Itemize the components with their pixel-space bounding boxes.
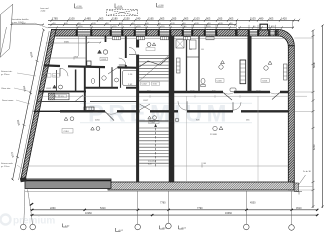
bottom level mark 2 — [116, 228, 124, 232]
left slant wall dim texts — [10, 52, 33, 159]
room label C002 — [46, 88, 52, 90]
svg-text:C003: C003 — [101, 59, 107, 61]
door leaf wallE 2 — [270, 93, 280, 100]
right-section window dim ticks — [238, 26, 294, 29]
svg-text:903: 903 — [229, 17, 234, 21]
stair label cluster top — [146, 43, 156, 51]
door leaf wallE 1 — [223, 93, 234, 101]
small fixture narrow room — [190, 40, 197, 49]
dark fixture above wallF — [84, 107, 94, 110]
left label 3 — [2, 99, 30, 104]
left boundary line top — [0, 27, 7, 57]
door leaf at y101.5 wall — [75, 95, 83, 102]
window jamb leaders — [77, 25, 276, 30]
stair text — [148, 161, 157, 166]
neighbour label — [12, 19, 49, 28]
svg-text:5870: 5870 — [313, 62, 316, 68]
big room label — [210, 126, 223, 136]
svg-text:C007: C007 — [143, 100, 149, 102]
svg-text:1165: 1165 — [148, 17, 154, 21]
svg-text:480: 480 — [259, 17, 264, 21]
svg-text:903: 903 — [206, 17, 211, 21]
top-left outside dim — [10, 23, 44, 26]
dim line in C003 — [87, 42, 101, 44]
stair landing boxes — [141, 82, 160, 86]
bottom dimension line A — [30, 202, 318, 211]
interior thin wall y=101.5 left — [37, 101, 87, 103]
svg-text:7790: 7790 — [197, 207, 203, 210]
window W4 — [159, 30, 170, 36]
small labels top rooms — [189, 49, 205, 51]
window jamb piers — [76, 30, 277, 36]
tiny texts along wall E row — [147, 91, 261, 93]
stair break line — [139, 56, 169, 82]
door leaf wallA gap — [108, 68, 118, 75]
window W1 — [77, 30, 91, 36]
partition link line — [187, 56, 200, 58]
slanted left wall — [21, 30, 56, 181]
interior wall A (y=68.8) — [44, 65, 139, 67]
symbol pair 2 left block — [91, 127, 100, 131]
right corner detail — [294, 170, 313, 195]
svg-text:C001: C001 — [43, 75, 49, 77]
grid circle C1 — [244, 191, 250, 230]
stair landing edge — [139, 120, 169, 122]
grid circle B1 — [135, 191, 141, 230]
watermark logo bottom-left — [1, 215, 56, 227]
svg-text:265: 265 — [218, 17, 223, 21]
sink circle 2 — [115, 78, 119, 82]
top wall (hatched, with windows) — [52, 30, 279, 37]
bathroom partition x=96 — [99, 67, 101, 88]
label cluster mid — [128, 74, 133, 86]
svg-text:+2.80: +2.80 — [76, 6, 82, 8]
bottom wall — [108, 182, 294, 190]
door arc wallF 2 — [178, 101, 187, 110]
dashed roof triangle — [107, 10, 138, 16]
svg-text:4550: 4550 — [250, 202, 256, 205]
door arc wallF 3 — [233, 102, 241, 110]
slant wall outer insulation line — [19, 31, 50, 180]
svg-text:1485: 1485 — [85, 17, 91, 21]
grid circle A1 — [21, 190, 27, 230]
rounded top-right corner — [278, 30, 294, 46]
room label stairhall — [143, 100, 149, 102]
room label C001 — [42, 74, 60, 78]
left label 1 — [1, 70, 36, 76]
wc small — [91, 79, 95, 84]
svg-text:1785: 1785 — [52, 17, 58, 21]
thin line y=96.5 right part — [39, 95, 308, 98]
radiator under W4 — [161, 37, 169, 40]
bottom level mark 0.00 — [63, 224, 71, 228]
stair label — [148, 116, 159, 124]
top level mark 2 — [115, 4, 123, 9]
svg-text:903: 903 — [99, 17, 104, 21]
door leaf wallF left — [105, 112, 117, 121]
terrain line at left — [24, 163, 288, 168]
radiator under W3 — [137, 37, 145, 40]
svg-text:Sciana istn.: Sciana istn. — [1, 70, 13, 73]
door X above stair — [140, 104, 151, 110]
interior wall E (y=93.5, right part) — [137, 91, 288, 94]
bathroom block wall y=86 — [85, 87, 139, 89]
right wall leader lines — [294, 38, 313, 190]
svg-text:1100: 1100 — [69, 17, 75, 21]
svg-text:4510: 4510 — [296, 207, 302, 210]
radiator under W2 — [113, 37, 121, 40]
lintel line under top wall — [56, 37, 288, 39]
bathtub — [123, 71, 138, 86]
sink circle 1 — [102, 76, 106, 80]
left label 2 — [1, 87, 32, 92]
top dimension texts row2 — [53, 23, 233, 25]
top right vertical leader — [236, 20, 292, 30]
stair door arc into room — [129, 48, 136, 55]
svg-text:2x dr 30: 2x dr 30 — [303, 170, 312, 173]
svg-text:1420: 1420 — [281, 17, 287, 21]
stair treads upper flight — [139, 56, 169, 82]
svg-text:16660: 16660 — [225, 212, 233, 215]
svg-text:C002: C002 — [46, 88, 52, 90]
vertical wall B upper (x=86, y36-68) — [85, 36, 87, 67]
window W6 — [205, 30, 216, 36]
window W3 — [135, 30, 146, 36]
right dimension line 1 — [312, 30, 316, 209]
top level mark 1 — [75, 4, 83, 9]
svg-text:1103: 1103 — [194, 17, 200, 21]
svg-text:1150: 1150 — [124, 17, 130, 21]
grid line vertical x=265 — [257, 96, 259, 182]
vertical wall G — [248, 36, 252, 92]
right wall — [288, 46, 294, 190]
window W2 — [111, 30, 122, 36]
watermark text center — [88, 101, 231, 128]
right dimension line 2 — [321, 25, 324, 209]
svg-text:1103: 1103 — [250, 17, 256, 21]
svg-text:gr. 25cm: gr. 25cm — [1, 73, 10, 76]
grid line vertical x=186 — [186, 96, 188, 182]
duct cabinet beside wall G — [240, 60, 246, 84]
svg-text:903: 903 — [160, 17, 165, 21]
grid circle A2 — [28, 190, 36, 230]
room symbol s1 — [53, 85, 63, 89]
svg-text:C005: C005 — [217, 81, 223, 83]
vertical partition x=186.5 — [186, 36, 188, 92]
door arc room1 — [60, 68, 68, 76]
partition left block x=66.5 — [75, 70, 77, 92]
svg-text:-0.02: -0.02 — [181, 227, 187, 229]
slant wall end cap — [20, 177, 27, 182]
svg-text:+2.80: +2.80 — [158, 5, 164, 7]
left slanted dimension line — [11, 29, 45, 181]
stair right wall — [169, 36, 175, 182]
bottom-left gray terrace wall — [25, 179, 111, 189]
bathroom partition x=112 — [111, 67, 113, 88]
grid circle D1 — [289, 191, 295, 230]
top level mark 3 — [157, 3, 165, 7]
bottom level mark 4 — [179, 226, 187, 230]
svg-text:2260: 2260 — [50, 207, 56, 210]
svg-text:22.088: 22.088 — [210, 134, 217, 136]
svg-text:C008: C008 — [51, 96, 57, 98]
partition left block x=56.5 — [56, 70, 58, 92]
interior wall F (main horizontal, y=114) — [34, 110, 289, 112]
tiny texts below wall F — [95, 120, 250, 122]
svg-text:gr. 12cm: gr. 12cm — [1, 165, 10, 168]
neighbour parcel outline top-left — [0, 4, 13, 57]
window W8 — [270, 30, 276, 35]
room label C008 — [62, 129, 73, 134]
pier x=105.5 — [105, 36, 107, 42]
symbol pair below wallF left — [64, 117, 74, 121]
vertical partition x=199 — [198, 36, 200, 92]
grid circle B2 — [166, 191, 172, 229]
window W5 — [183, 30, 192, 36]
svg-text:-0.02: -0.02 — [118, 230, 124, 232]
svg-text:3585: 3585 — [64, 41, 70, 43]
svg-text:11960: 11960 — [85, 212, 92, 215]
sink fixture — [230, 88, 236, 92]
left label 4 — [1, 162, 24, 170]
stair left wall — [136, 36, 139, 182]
top wall jog at x=236 — [235, 30, 238, 37]
top left tiny label — [41, 8, 50, 13]
vertical wall B — [84, 67, 86, 112]
svg-text:+2.80: +2.80 — [117, 6, 123, 8]
shower square — [176, 40, 184, 49]
svg-text:Sciana rozb.: Sciana rozb. — [1, 162, 14, 165]
top dimension line second — [48, 23, 237, 26]
thin wall line y=101.5 center part — [90, 101, 139, 103]
svg-text:Drzwi nowe: Drzwi nowe — [2, 99, 14, 102]
svg-text:7780: 7780 — [160, 202, 166, 205]
line below bottom wall — [25, 190, 294, 192]
stair treads lower flight — [139, 128, 169, 163]
svg-text:C002: C002 — [142, 84, 148, 86]
svg-text:C006: C006 — [262, 81, 268, 83]
svg-text:C004: C004 — [150, 122, 156, 124]
svg-text:903: 903 — [269, 17, 274, 21]
room label C006 — [261, 61, 272, 83]
counter block below wall C — [49, 93, 70, 100]
wc fixture — [201, 78, 205, 87]
svg-text:240: 240 — [136, 17, 141, 21]
top dimension texts row3 — [79, 26, 211, 28]
svg-text:903: 903 — [184, 17, 189, 21]
room label C005 — [216, 61, 225, 83]
radiator under W6 — [206, 37, 214, 40]
radiator on right wall — [284, 64, 288, 80]
bathroom partition x=120.5 — [120, 67, 122, 88]
radiator under W5 — [184, 37, 191, 40]
stair center dashed line with arrow — [154, 124, 157, 168]
top dimension line third (short) — [48, 26, 236, 29]
svg-text:5310: 5310 — [100, 207, 106, 210]
symbol pair below wallF mid — [169, 118, 179, 122]
top dimension line main — [48, 19, 300, 22]
watermark rules — [80, 103, 252, 123]
room label top1 — [98, 50, 108, 61]
bottom level mark 3 — [160, 226, 168, 230]
svg-text:2x4d: 2x4d — [41, 10, 47, 12]
svg-text:8730: 8730 — [313, 144, 316, 150]
top dimension texts — [52, 17, 287, 21]
interior dimension marks room left — [46, 42, 86, 45]
bottom dimension line B — [30, 212, 318, 216]
room label C003 — [48, 99, 54, 101]
radiator small room — [177, 58, 181, 73]
svg-text:C010: C010 — [64, 131, 70, 133]
svg-text:Okno istn.: Okno istn. — [1, 87, 11, 90]
interior wall C (y=92.3, left part) — [39, 91, 86, 93]
svg-text:1180: 1180 — [112, 17, 118, 21]
door arc wallD — [119, 58, 126, 65]
corner fixture room C003 — [87, 61, 91, 66]
vertical wall D — [125, 36, 127, 68]
window W7 — [249, 30, 258, 36]
chimney block above top wall — [260, 24, 268, 30]
svg-text:265: 265 — [172, 17, 177, 21]
